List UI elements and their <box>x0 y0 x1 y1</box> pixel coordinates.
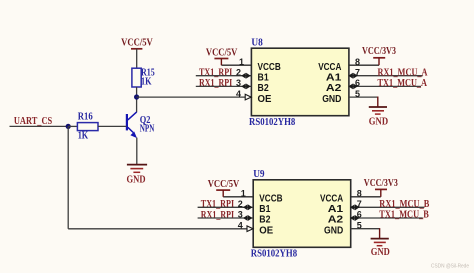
ground GND (right of U9) <box>379 228 381 239</box>
svg-text:NPN: NPN <box>140 124 155 135</box>
svg-text:A2: A2 <box>326 83 342 94</box>
svg-text:VCCB: VCCB <box>258 62 281 73</box>
pin arrow B2 (U8) <box>241 84 251 90</box>
op IC U8 body <box>251 48 349 116</box>
wire R15 to Q2 collector <box>136 87 138 112</box>
svg-text:RS0102YH8: RS0102YH8 <box>249 117 295 128</box>
pin 1 VCCB stub (U9) <box>223 196 253 198</box>
pin arrow A2 (U9) <box>350 215 360 221</box>
svg-text:VCCA: VCCA <box>320 194 343 205</box>
power VCC/3V3 (U8) <box>362 46 396 65</box>
wire pin 7 A1 / net RX1_MCU_B (U9) <box>351 206 425 208</box>
svg-text:VCC/3V3: VCC/3V3 <box>364 178 398 189</box>
junction node (UART_CS / R16) <box>66 124 71 129</box>
svg-text:2: 2 <box>236 67 241 77</box>
svg-text:2: 2 <box>238 199 243 209</box>
svg-text:B2: B2 <box>258 83 270 94</box>
svg-text:8: 8 <box>357 189 362 199</box>
pin 8 VCCA stub (U8) <box>349 64 379 66</box>
wire pin 7 A1 / net RX1_MCU_A (U8) <box>349 75 423 77</box>
svg-text:B1: B1 <box>259 204 271 215</box>
svg-text:RX1_MCU_B: RX1_MCU_B <box>379 199 429 210</box>
wire pin 6 A2 / net TX1_MCU_B (U9) <box>351 217 423 219</box>
svg-text:1K: 1K <box>141 77 152 88</box>
wire bottom run to U9 OE <box>68 228 253 230</box>
wire VCC/5V to R15 <box>136 49 138 69</box>
pin arrow A2 (U8) <box>348 84 358 90</box>
svg-text:A1: A1 <box>326 72 342 83</box>
pin arrow A1 (U8) <box>348 73 358 79</box>
wire UART_CS <box>10 125 69 127</box>
pin 1 VCCB stub (U8) <box>221 64 251 66</box>
junction node (collector / OE net) <box>134 94 139 99</box>
svg-text:TX1_MCU_A: TX1_MCU_A <box>378 78 428 89</box>
svg-text:5: 5 <box>355 89 360 99</box>
IC U9 body <box>253 180 350 248</box>
svg-text:UART_CS: UART_CS <box>14 116 53 127</box>
svg-text:RX1_RPI: RX1_RPI <box>201 210 234 221</box>
svg-text:3: 3 <box>236 78 241 88</box>
power VCC/5V (U8) <box>206 47 238 65</box>
svg-text:1K: 1K <box>78 131 89 142</box>
svg-text:RX1_RPI: RX1_RPI <box>199 78 232 89</box>
svg-text:B1: B1 <box>258 72 270 83</box>
pin arrow B1 (U9) <box>243 204 253 210</box>
svg-text:4: 4 <box>236 89 241 99</box>
resistor R15 <box>132 68 141 87</box>
svg-text:A2: A2 <box>328 215 344 226</box>
wire TX1_RPI to pin 2 <box>196 75 252 77</box>
svg-text:GND: GND <box>369 116 388 127</box>
svg-text:R16: R16 <box>78 111 93 122</box>
svg-text:8: 8 <box>355 57 360 67</box>
wire junction to U8 OE pin <box>137 96 252 98</box>
transistor Q2 <box>127 112 137 138</box>
svg-text:1: 1 <box>241 189 246 199</box>
svg-text:A1: A1 <box>328 204 344 215</box>
svg-text:OE: OE <box>258 94 272 105</box>
svg-text:5: 5 <box>357 220 362 230</box>
svg-text:VCC/5V: VCC/5V <box>121 37 153 48</box>
svg-text:CSDN @Sil-Rede: CSDN @Sil-Rede <box>431 264 469 270</box>
pin arrow OE (U9, input) <box>247 226 253 232</box>
pin 8 VCCA stub (U9) <box>351 196 381 198</box>
svg-text:TX1_MCU_B: TX1_MCU_B <box>379 210 429 221</box>
wire TX1_RPI to pin 2 (U9) <box>198 206 254 208</box>
pin arrow A1 (U9) <box>350 204 360 210</box>
svg-text:VCCA: VCCA <box>318 62 341 73</box>
svg-text:TX1_RPI: TX1_RPI <box>199 68 232 79</box>
svg-text:1: 1 <box>239 57 244 67</box>
svg-text:VCC/5V: VCC/5V <box>206 47 238 58</box>
svg-text:OE: OE <box>259 225 273 236</box>
svg-text:VCC/5V: VCC/5V <box>208 179 240 190</box>
svg-text:RS0102YH8: RS0102YH8 <box>251 249 297 260</box>
wire RX1_RPI to pin 3 (U9) <box>198 217 254 219</box>
wire UART_CS vertical drop <box>67 126 69 228</box>
pin arrow OE (U8, input) <box>245 94 251 100</box>
svg-text:3: 3 <box>238 210 243 220</box>
svg-text:GND: GND <box>371 247 390 258</box>
svg-text:TX1_RPI: TX1_RPI <box>201 199 234 210</box>
svg-text:VCC/3V3: VCC/3V3 <box>362 46 396 57</box>
ground GND (below Q2) <box>127 165 148 186</box>
resistor R16 <box>77 123 98 131</box>
svg-text:U8: U8 <box>251 38 262 49</box>
pin arrow B2 (U9) <box>243 215 253 221</box>
svg-text:VCCB: VCCB <box>259 194 282 205</box>
wire pin 5 GND (U8) <box>349 96 378 98</box>
wire pin 5 GND (U9) <box>351 228 380 230</box>
wire Q2 emitter to GND <box>136 138 138 165</box>
svg-text:U9: U9 <box>253 169 264 180</box>
pin arrow B1 (U8) <box>241 73 251 79</box>
wire RX1_RPI to pin 3 <box>196 85 252 87</box>
wire R16 to Q2 base <box>98 125 126 127</box>
svg-text:B2: B2 <box>259 215 271 226</box>
svg-text:GND: GND <box>127 175 146 186</box>
ground GND (right of U8) <box>369 97 388 128</box>
svg-text:GND: GND <box>322 94 341 105</box>
wire pin 6 A2 / net TX1_MCU_A (U8) <box>349 85 421 87</box>
power VCC/5V (top, feeds R15) <box>121 37 153 49</box>
wire junction to R16 <box>68 125 78 127</box>
svg-text:4: 4 <box>238 220 243 230</box>
svg-text:RX1_MCU_A: RX1_MCU_A <box>378 67 429 78</box>
svg-text:GND: GND <box>324 225 343 236</box>
